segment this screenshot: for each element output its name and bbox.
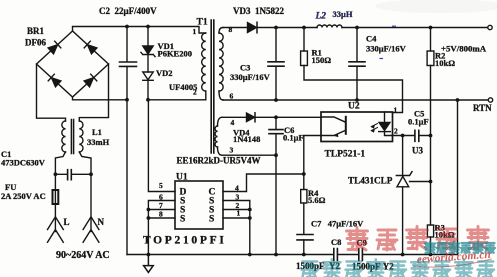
bridge diode lower-left <box>48 74 61 87</box>
wire: AC left leg, bridge left corner down to choke <box>37 64 66 121</box>
wire: opto cathode pin 2 to C5 <box>393 135 431 137</box>
transformer T1 core <box>211 20 214 153</box>
bridge diode lower-right <box>84 74 97 87</box>
diode VD2 UF4005 blocking <box>143 72 153 80</box>
svg-text:C8: C8 <box>331 237 341 247</box>
node: pin8 on source bus <box>147 216 151 220</box>
svg-text:TLP521-1: TLP521-1 <box>325 150 366 160</box>
svg-text:N: N <box>98 217 105 227</box>
svg-text:+5V/800mA: +5V/800mA <box>441 44 487 54</box>
capacitor C7 47uF control <box>297 235 313 240</box>
node: bias return on ground rail <box>274 253 278 257</box>
wire: opto emitter down to control node <box>304 136 321 175</box>
LED light arrows <box>372 124 378 131</box>
node: C7 bottom on ground rail <box>302 253 306 257</box>
wire: RTN rail branch down to secondary ground rail <box>457 100 459 255</box>
svg-text:L: L <box>64 217 70 227</box>
svg-text:0.1μF: 0.1μF <box>283 133 304 143</box>
diode VD4 1N4148 bias rectifier <box>222 116 246 118</box>
svg-text:L1: L1 <box>92 127 102 137</box>
node: pin7 on source bus <box>147 208 151 212</box>
blue ink tick on wire <box>392 25 396 27</box>
wire: top DC bus from bridge + to T1 primary pin 1 <box>73 27 206 34</box>
node: R3 bottom on rail <box>429 253 433 257</box>
svg-text:2: 2 <box>193 88 197 97</box>
node: VD1 top on DC bus <box>146 25 150 29</box>
wire: U1 pin 2 source lead <box>223 209 250 211</box>
svg-text:330μF/16V: 330μF/16V <box>366 44 407 54</box>
node: TL431 anode on rail <box>401 253 405 257</box>
capacitor C4 output filter <box>356 28 358 101</box>
diode VD1 P6KE200 clamp TVS <box>147 27 149 47</box>
wire: primary ground left column <box>126 100 128 255</box>
inductor L1 common-mode choke left winding <box>62 121 66 152</box>
svg-text:90~264V AC: 90~264V AC <box>56 250 110 261</box>
wire: secondary ground rail right of C9 <box>363 254 458 256</box>
node: branch on RTN rail <box>456 98 460 102</box>
node: VD2 bottom on drain wire <box>146 98 150 102</box>
svg-text:1: 1 <box>237 209 241 218</box>
terminal RTN output <box>488 98 492 102</box>
wire: secondary +5V rail <box>223 27 488 29</box>
capacitor C3 output filter <box>275 28 277 101</box>
wire: U1 pin 3 source lead <box>223 201 250 255</box>
LED inside U2 <box>384 112 386 122</box>
svg-text:TL431CLP: TL431CLP <box>348 176 393 186</box>
svg-text:8: 8 <box>159 210 163 219</box>
node: reference junction <box>429 180 433 184</box>
svg-text:2A 250V AC: 2A 250V AC <box>1 191 46 201</box>
node: source bus on ground rail <box>147 253 151 257</box>
wire: divider column R2 to R3 <box>430 66 432 226</box>
node: R2 top <box>429 26 433 30</box>
watermark teal big char 3 <box>346 261 362 277</box>
svg-text:473DC630V: 473DC630V <box>1 158 46 168</box>
fuse FU <box>53 190 59 204</box>
wire: U1 pin 4 control lead to feedback node <box>223 174 304 192</box>
wire: T1 pin 3 return <box>222 154 276 156</box>
wire: N line <box>90 174 92 231</box>
svg-text:150Ω: 150Ω <box>312 55 332 65</box>
wire: TL431 reference to divider <box>410 181 431 183</box>
watermark teal small char 4 <box>461 243 471 253</box>
svg-text:L2: L2 <box>315 12 327 22</box>
wire: U1 pin 6 source lead <box>148 201 175 255</box>
svg-text:C2 22μF/400V: C2 22μF/400V <box>99 6 157 16</box>
watermark red char 3 <box>407 227 428 250</box>
svg-text:0.1μF: 0.1μF <box>408 117 429 127</box>
watermark teal big char 4 <box>367 259 384 277</box>
wire: opto collector to bias supply <box>276 116 321 118</box>
watermark red char 5 <box>468 227 489 250</box>
node: pin3 / C6 bottom junction <box>274 153 278 157</box>
inductor L1 core <box>71 120 73 154</box>
wire: T1 bias pin 4 lead <box>218 117 223 126</box>
svg-text:RTN: RTN <box>473 103 492 113</box>
watermark teal big char 9 <box>478 261 494 277</box>
svg-text:1N4148: 1N4148 <box>233 134 260 144</box>
capacitor C5 0.1uF <box>415 130 419 141</box>
svg-text:5: 5 <box>159 181 163 190</box>
svg-text:4: 4 <box>235 184 239 193</box>
wire: R4 bottom to C7 <box>303 203 305 234</box>
watermark teal big char 1 <box>302 261 318 277</box>
svg-text:S: S <box>180 215 185 225</box>
scan smudge top right <box>375 0 497 13</box>
wire: bias return down to ground rail <box>275 155 277 254</box>
watermark red char 4 <box>437 229 457 249</box>
svg-text:33mH: 33mH <box>87 137 110 147</box>
bridge diode upper-left <box>48 41 61 54</box>
wire: choke left bottom lead to L line <box>55 152 65 174</box>
watermark teal big char 2 <box>323 259 340 277</box>
watermark teal big char 7 <box>434 261 450 277</box>
wire: U1 pin 5 drain lead up to drain node <box>148 101 175 192</box>
node: C1 right junction <box>89 172 93 176</box>
watermark red char 2 <box>377 230 397 250</box>
watermark teal small char 6 <box>485 243 495 253</box>
node: pin2 on right source bus <box>248 208 252 212</box>
svg-text:6: 6 <box>230 92 234 101</box>
svg-text:U1: U1 <box>176 173 188 183</box>
node: opto cathode / TL431 cathode <box>401 134 405 138</box>
ground symbol primary <box>144 255 154 273</box>
capacitor C8 Y2 <box>334 249 338 261</box>
resistor R3 10k lower divider <box>427 225 433 237</box>
node: C2 bottom / bridge negative <box>125 98 129 102</box>
wire: R1 bottom to opto anode pin 1 <box>304 66 403 113</box>
node: C4 top <box>355 26 359 30</box>
svg-text:U3: U3 <box>412 146 423 156</box>
watermark teal small char 2 <box>437 243 447 253</box>
svg-text:U2: U2 <box>348 102 360 112</box>
wire: L line into fuse <box>54 174 56 190</box>
svg-text:T1: T1 <box>197 18 208 28</box>
svg-text:5.6Ω: 5.6Ω <box>308 195 326 205</box>
wire: T1 secondary pin 8 lead <box>219 28 223 34</box>
node: C1 left junction <box>54 172 58 176</box>
node: pin1 on right source bus <box>248 216 252 220</box>
op-amp U1 TOP210PFI body <box>175 181 223 229</box>
transformer T1 bias winding <box>215 126 217 147</box>
svg-text:S: S <box>209 215 214 225</box>
svg-text:VD2: VD2 <box>156 68 173 78</box>
shunt regulator U3 TL431CLP <box>402 136 404 176</box>
node: VD4 cathode / C6 top <box>274 115 278 119</box>
transistor inside U2 <box>321 117 346 136</box>
node: right source bus on ground rail <box>248 253 252 257</box>
inductor L1 right winding <box>79 121 83 152</box>
resistor R4 5.6ohm control <box>303 174 305 190</box>
svg-text:BR1: BR1 <box>27 26 45 36</box>
svg-text:1: 1 <box>394 106 398 115</box>
bridge diode upper-right <box>84 41 97 54</box>
wire: T1 secondary pin 6 lead <box>219 91 223 100</box>
transformer T1 secondary winding <box>219 33 223 91</box>
wire: L line below fuse <box>54 204 56 232</box>
svg-text:3: 3 <box>230 146 234 155</box>
wire: rail between C8 and C9 <box>338 254 358 256</box>
svg-text:VD3 1N5822: VD3 1N5822 <box>233 6 284 16</box>
svg-text:1: 1 <box>193 27 197 36</box>
inductor L2 <box>317 25 342 28</box>
svg-text:C4: C4 <box>366 34 377 44</box>
wire: drain node to T1 primary pin 2 <box>148 91 206 100</box>
terminal +5V output <box>488 25 492 29</box>
svg-text:TOP210PFI: TOP210PFI <box>143 235 227 247</box>
svg-text:2: 2 <box>394 127 398 136</box>
wire: secondary RTN rail <box>223 99 488 101</box>
opto U2 TLP521-1 body <box>321 112 393 142</box>
capacitor C1 X-cap across mains <box>55 173 91 175</box>
watermark teal small char 5 <box>473 242 484 253</box>
node: C4 bottom <box>355 98 359 102</box>
wire: U1 pin 7 source lead <box>148 209 175 211</box>
wire: AC right leg, bridge right corner down to choke <box>79 64 108 121</box>
wire: U1 pin 1 source lead <box>223 217 250 219</box>
wire: U1 pin 8 source lead <box>148 217 175 219</box>
watermark teal big char 8 <box>455 259 472 277</box>
watermark teal small char 3 <box>449 242 460 253</box>
svg-text:10kΩ: 10kΩ <box>435 58 455 68</box>
transformer T1 primary winding <box>202 33 206 91</box>
wire: choke right bottom lead to N line <box>79 152 91 174</box>
node: C5 right on divider column <box>429 134 433 138</box>
watermark teal big char 5 <box>390 261 406 277</box>
diode VD3 1N5822 rectifier <box>248 23 257 33</box>
watermark red char 1 <box>347 228 368 251</box>
wire: bridge negative to primary ground column <box>73 97 128 100</box>
svg-text:33μH: 33μH <box>333 9 353 19</box>
watermark teal big char 6 <box>411 259 428 277</box>
node: C2 top on DC bus <box>125 25 129 29</box>
svg-text:330μF/16V: 330μF/16V <box>230 72 271 82</box>
node: R1 top <box>302 26 306 30</box>
wire: primary ground rail <box>127 254 333 256</box>
bridge rectifier BR1 diamond <box>37 31 109 97</box>
svg-text:8: 8 <box>229 25 233 34</box>
svg-text:C3: C3 <box>240 63 250 73</box>
wire: T1 bias pin 3 lead <box>218 147 223 155</box>
resistor R1 150ohm <box>303 28 305 52</box>
resistor R2 10k upper divider <box>430 28 432 52</box>
svg-text:P6KE200: P6KE200 <box>158 49 192 59</box>
watermark teal small char 1 <box>425 242 436 253</box>
svg-text:4: 4 <box>231 118 235 127</box>
capacitor C9 Y2 <box>359 249 363 261</box>
node: C3 top <box>274 26 278 30</box>
capacitor C6 bias filter <box>275 117 277 155</box>
node: control feedback node <box>302 172 306 176</box>
svg-text:EE16R2kD-UR5V4W: EE16R2kD-UR5V4W <box>177 156 261 166</box>
capacitor C2 bulk cap <box>126 27 128 62</box>
svg-text:DF06: DF06 <box>25 38 46 48</box>
terminal N plug symbol <box>83 217 99 243</box>
node: C3 bottom <box>274 98 278 102</box>
terminal L plug symbol <box>48 217 64 243</box>
